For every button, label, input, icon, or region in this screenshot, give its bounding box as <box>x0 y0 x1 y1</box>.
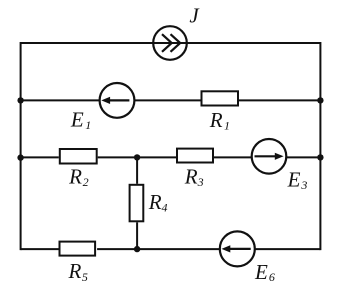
EMF source E1 <box>100 83 135 118</box>
wire row3: R3 to E3 <box>214 156 252 158</box>
wire row2: E1 to R1 <box>134 99 200 101</box>
node right row3 <box>317 154 323 160</box>
wire bottom: R5 to E6 <box>97 248 220 250</box>
node right row2 <box>317 97 323 103</box>
wire bottom: left corner to R5 <box>21 248 59 250</box>
wire R4 upper stem <box>136 157 138 183</box>
wire row3: left node to R2 <box>21 156 59 158</box>
resistor R1 <box>202 91 239 105</box>
resistor R3 <box>177 149 213 163</box>
resistor R4 (vertical) <box>130 185 144 222</box>
wire row2: left node to E1 <box>21 99 100 101</box>
wire right vertical <box>319 42 321 250</box>
node left row2 <box>17 97 23 103</box>
node left row3 <box>17 154 23 160</box>
wire top left segment <box>21 42 153 44</box>
resistor R5 <box>60 242 96 256</box>
wire row3: R2 to R3 <box>98 156 176 158</box>
wire row3: E3 to right node <box>286 156 320 158</box>
EMF source E6 <box>220 231 255 266</box>
wire left vertical <box>20 42 22 250</box>
resistor R2 <box>60 149 97 164</box>
wire row2: R1 to right node <box>239 99 320 101</box>
current source J <box>153 26 187 60</box>
wire R4 lower stem <box>136 222 138 249</box>
node R4 top <box>134 154 140 160</box>
wire top right segment <box>187 42 320 44</box>
wire bottom: E6 to right corner <box>255 248 321 250</box>
EMF source E3 <box>252 139 287 174</box>
wire through current source J <box>153 42 188 44</box>
node R4 bottom <box>134 246 140 252</box>
